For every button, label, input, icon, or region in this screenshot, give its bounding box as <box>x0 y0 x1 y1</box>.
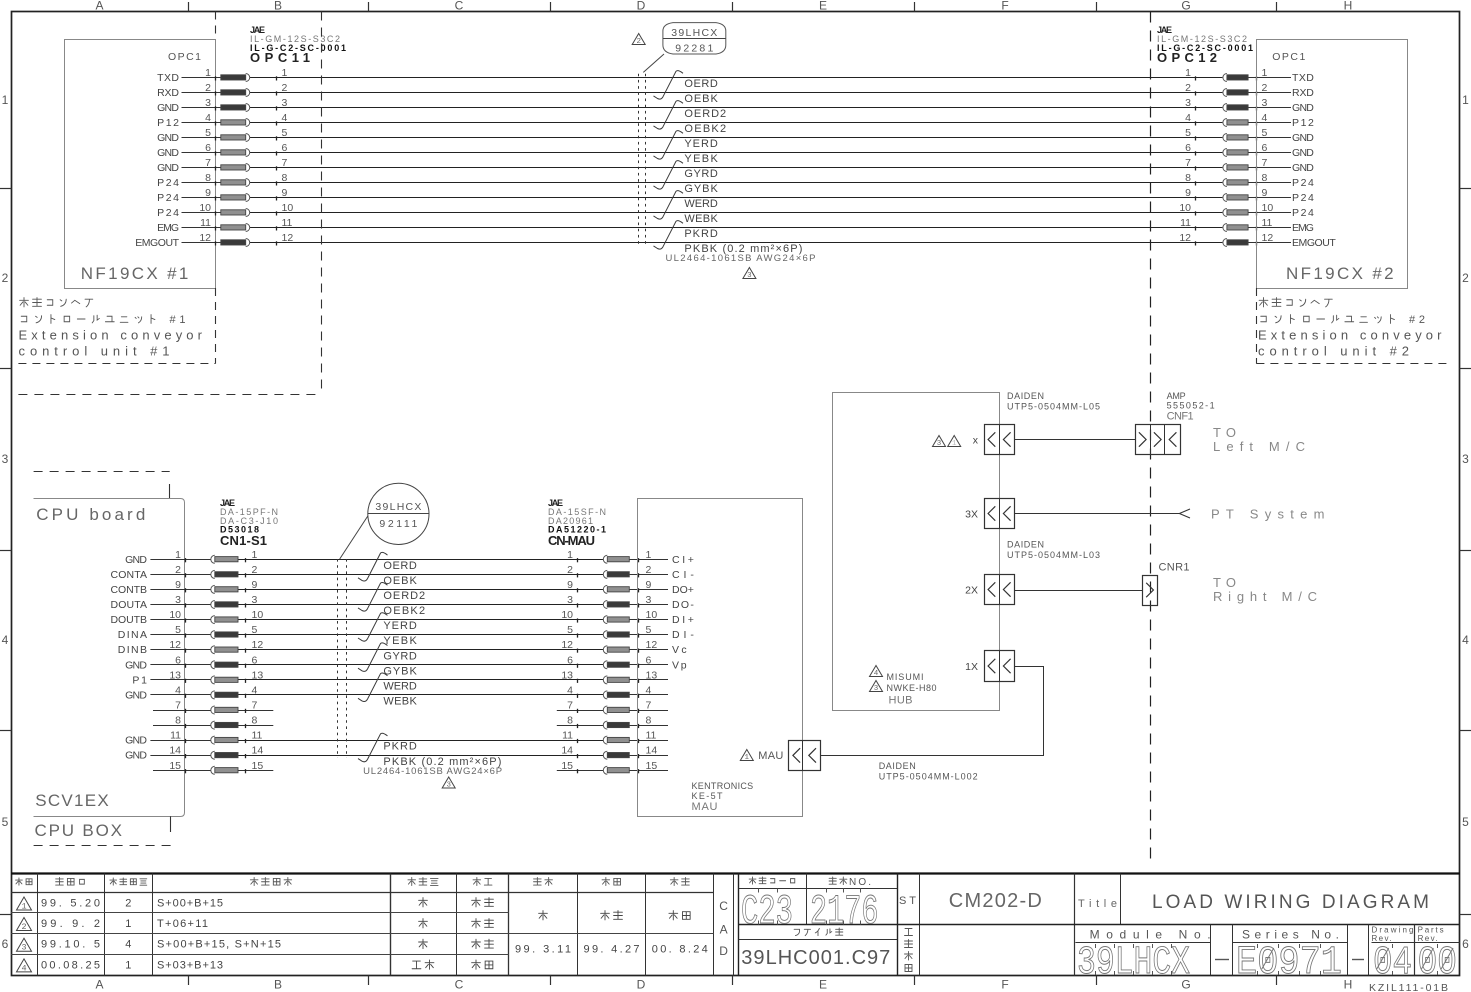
cable spec UL2464 (top) <box>666 253 816 264</box>
svg-text:A: A <box>95 0 103 13</box>
svg-text:92281: 92281 <box>675 43 713 55</box>
svg-text:EMG: EMG <box>1292 222 1314 234</box>
Module No. header <box>1090 928 1211 942</box>
svg-text:3: 3 <box>1185 97 1191 109</box>
CNF1 label block AMP <box>1167 391 1215 423</box>
svg-text:4: 4 <box>1462 633 1469 647</box>
CN-MAU pin 1 contact <box>567 549 651 564</box>
svg-text:4: 4 <box>874 670 879 678</box>
cable spec UL2464 (middle) <box>363 766 502 777</box>
HUB port 1X <box>985 651 1015 682</box>
svg-text:CONTB: CONTB <box>111 584 148 596</box>
svg-text:HUB: HUB <box>889 695 913 707</box>
svg-text:3: 3 <box>874 685 879 693</box>
CN1-S1 pin 7 contact <box>175 700 257 715</box>
svg-text:7: 7 <box>567 700 573 712</box>
OPC12 pin 4 contact <box>1185 112 1267 127</box>
svg-text:3: 3 <box>937 440 942 448</box>
svg-text:GND: GND <box>1292 132 1314 144</box>
svg-text:YERD: YERD <box>383 620 416 632</box>
svg-text:TXD: TXD <box>1292 72 1314 84</box>
svg-text:4: 4 <box>1262 112 1268 124</box>
svg-text:555052-1: 555052-1 <box>1167 401 1215 411</box>
wire row 14 CN1-S1 pin 14 <box>150 755 668 757</box>
svg-text:11: 11 <box>1180 217 1191 229</box>
file name 39LHC001.C97 <box>741 947 890 969</box>
svg-text:2: 2 <box>125 898 131 910</box>
svg-text:NO.: NO. <box>849 877 871 888</box>
svg-text:6: 6 <box>1262 142 1268 154</box>
connector OPC12 label block (JAE) <box>1157 25 1253 65</box>
svg-text:9: 9 <box>175 579 181 591</box>
twisted pair mark 5 (top) <box>654 191 684 219</box>
svg-text:UL2464-1061SB AWG24×6P: UL2464-1061SB AWG24×6P <box>666 253 816 264</box>
svg-text:3: 3 <box>446 782 451 790</box>
svg-text:4: 4 <box>175 684 181 696</box>
svg-text:DO+: DO+ <box>672 584 694 596</box>
svg-text:2: 2 <box>21 922 26 932</box>
wire pin7 OPC11 to OPC12 (GND) <box>182 167 1292 169</box>
svg-text:OEBK: OEBK <box>383 575 417 587</box>
revision table grid <box>11 874 734 976</box>
OPC12 pin 11 contact <box>1180 217 1272 232</box>
svg-text:KZIL111-01B: KZIL111-01B <box>1369 982 1448 992</box>
svg-text:E: E <box>819 0 827 13</box>
svg-text:F: F <box>1001 0 1008 13</box>
svg-text:39LHCX: 39LHCX <box>671 27 717 39</box>
svg-text:WERD: WERD <box>684 198 717 210</box>
svg-text:D: D <box>637 978 646 992</box>
MAU port label <box>758 750 783 762</box>
CN1-S1 pin 5 contact <box>175 624 257 639</box>
svg-text:GND: GND <box>157 162 179 174</box>
svg-text:UTP5-0504MM-L002: UTP5-0504MM-L002 <box>879 772 978 782</box>
svg-text:4: 4 <box>205 112 211 124</box>
svg-text:5: 5 <box>2 815 9 829</box>
unit #2 label: Extension conveyor control unit #2 <box>1258 298 1442 359</box>
Series No. header <box>1242 928 1339 942</box>
svg-text:B: B <box>274 0 282 13</box>
MAU port connector <box>789 740 821 770</box>
svg-text:OERD2: OERD2 <box>684 108 726 120</box>
svg-text:2: 2 <box>2 271 9 285</box>
svg-text:DAIDEN: DAIDEN <box>879 761 916 771</box>
svg-text:1: 1 <box>21 902 26 912</box>
svg-text:8: 8 <box>175 715 181 727</box>
twisted pair mark 3 (top) <box>654 131 684 159</box>
svg-text:UTP5-0504MM-L05: UTP5-0504MM-L05 <box>1007 402 1100 412</box>
svg-text:x: x <box>973 435 979 447</box>
svg-text:5: 5 <box>1462 815 1469 829</box>
svg-text:GND: GND <box>1292 162 1314 174</box>
svg-text:GND: GND <box>157 147 179 159</box>
svg-text:8: 8 <box>1185 172 1191 184</box>
HUB port 2X <box>985 574 1015 604</box>
connector CNR1 <box>1143 576 1158 606</box>
drawing revision 04 <box>1373 941 1412 986</box>
svg-text:10: 10 <box>646 609 658 621</box>
svg-text:G: G <box>1181 0 1190 13</box>
twisted pair mark 2 (top) <box>654 101 684 129</box>
svg-text:3: 3 <box>747 272 752 280</box>
svg-text:Title: Title <box>1078 898 1117 910</box>
svg-text:4: 4 <box>252 684 258 696</box>
CN-MAU pin 3 contact <box>567 594 651 609</box>
svg-text:RXD: RXD <box>157 87 179 99</box>
OPC12 pin 5 contact <box>1185 127 1267 142</box>
svg-text:13: 13 <box>646 669 658 681</box>
svg-text:CPU board: CPU board <box>36 505 145 524</box>
CPU board signal names GND..P1 <box>111 554 148 762</box>
svg-text:P24: P24 <box>157 192 179 204</box>
svg-text:11: 11 <box>252 730 263 742</box>
svg-text:1: 1 <box>567 549 573 561</box>
wire row 12 CN1-S1 pin 8 <box>153 725 668 727</box>
svg-text:9: 9 <box>282 187 288 199</box>
CN1-S1 pin 6 contact <box>175 654 257 669</box>
svg-text:Right M/C: Right M/C <box>1213 589 1317 604</box>
Parts Rev. header <box>1418 926 1444 944</box>
revision triangle 3 (top cable spec) <box>743 268 756 281</box>
svg-text:12: 12 <box>1262 232 1274 244</box>
twisted pair mark 6 (middle) <box>358 733 388 762</box>
svg-text:15: 15 <box>169 760 181 772</box>
svg-text:13: 13 <box>252 669 264 681</box>
svg-text:DI-: DI- <box>672 629 694 641</box>
approval signatures <box>515 911 708 956</box>
svg-text:CN-MAU: CN-MAU <box>548 533 595 548</box>
cable label DAIDEN UTP5-0504MM-L002 <box>879 761 978 782</box>
wire row 2 CN1-S1 pin 2 <box>150 574 668 576</box>
svg-text:13: 13 <box>169 669 181 681</box>
svg-text:3: 3 <box>1462 452 1469 466</box>
svg-text:4: 4 <box>646 684 652 696</box>
wire pin5 OPC11 to OPC12 (GND) <box>182 137 1292 139</box>
wire pin12 OPC11 to OPC12 (EMGOUT) <box>182 242 1292 244</box>
OPC11 pin 1 contact <box>205 67 287 82</box>
svg-text:10: 10 <box>282 202 294 214</box>
svg-text:LOAD WIRING DIAGRAM: LOAD WIRING DIAGRAM <box>1152 892 1429 913</box>
parts revision 00 <box>1418 941 1457 986</box>
svg-text:CNF1: CNF1 <box>1167 411 1194 423</box>
svg-text:8: 8 <box>282 172 288 184</box>
svg-text:P12: P12 <box>1292 117 1314 129</box>
unit #1 label: Extension conveyor control unit #1 <box>19 298 203 359</box>
svg-text:A: A <box>95 978 103 992</box>
svg-text:1: 1 <box>646 549 652 561</box>
svg-text:B: B <box>274 978 282 992</box>
svg-text:DOUTA: DOUTA <box>111 599 148 611</box>
CN-MAU pin 6 contact <box>567 654 651 669</box>
svg-text:11: 11 <box>200 217 211 229</box>
OPC12 pin 6 contact <box>1185 142 1267 157</box>
svg-text:2: 2 <box>175 564 181 576</box>
svg-text:10: 10 <box>199 202 211 214</box>
OPC12 pin 7 contact <box>1185 157 1267 172</box>
svg-text:DOUTB: DOUTB <box>111 614 148 626</box>
svg-text:14: 14 <box>561 745 573 757</box>
wire row 4 CN1-S1 pin 3 <box>150 604 668 606</box>
svg-text:8: 8 <box>567 715 573 727</box>
svg-text:TXD: TXD <box>157 72 179 84</box>
svg-text:3: 3 <box>567 594 573 606</box>
svg-text:5: 5 <box>1262 127 1268 139</box>
OPC11 pin 2 contact <box>205 82 287 97</box>
svg-text:12: 12 <box>282 232 294 244</box>
svg-text:MAU: MAU <box>758 750 783 762</box>
title block right grid <box>739 874 1461 976</box>
drawing title LOAD WIRING DIAGRAM <box>1152 892 1429 913</box>
svg-text:8: 8 <box>205 172 211 184</box>
svg-text:GYRD: GYRD <box>383 650 416 662</box>
MAU box (KENTRONICS KE-5T) <box>638 499 803 817</box>
svg-text:7: 7 <box>252 700 258 712</box>
OPC11 pin 3 contact <box>205 97 287 112</box>
svg-text:DINA: DINA <box>118 629 147 641</box>
CPU BOX dashed enclosure top edge <box>34 472 170 499</box>
svg-text:EMG: EMG <box>157 222 179 234</box>
svg-text:1: 1 <box>282 67 288 79</box>
svg-text:5: 5 <box>646 624 652 636</box>
OPC11 pin 12 contact <box>199 232 293 247</box>
svg-text:CONTA: CONTA <box>111 569 148 581</box>
wire HUB 3X to PT System <box>1015 509 1190 518</box>
form number KZIL111-01B <box>1369 982 1448 992</box>
OPC12 pin 12 contact <box>1179 232 1273 247</box>
svg-text:9: 9 <box>252 579 258 591</box>
svg-text:1: 1 <box>175 549 181 561</box>
destination label TO Right M/C <box>1213 575 1317 604</box>
wire HUB x to CNF1 <box>1015 439 1136 441</box>
svg-text:E: E <box>819 978 827 992</box>
CN-MAU pin 9 contact <box>567 579 651 594</box>
leader line to cable dashes (middle) <box>340 516 368 559</box>
svg-text:6: 6 <box>282 142 288 154</box>
OPC11 pin 10 contact <box>199 202 293 217</box>
svg-text:7: 7 <box>646 700 652 712</box>
wire color labels OERD..PKBK (middle) <box>383 560 501 768</box>
svg-text:OPC1: OPC1 <box>168 51 201 63</box>
svg-text:3: 3 <box>1262 97 1268 109</box>
svg-text:EMGOUT: EMGOUT <box>135 237 179 249</box>
svg-text:KE-5T: KE-5T <box>692 791 724 801</box>
svg-text:DO-: DO- <box>672 599 694 611</box>
svg-text:9: 9 <box>1185 187 1191 199</box>
svg-text:P24: P24 <box>1292 192 1314 204</box>
OPC11 pin 8 contact <box>205 172 287 187</box>
svg-text:GND: GND <box>125 554 147 566</box>
twisted pair mark 4 (top) <box>654 161 684 189</box>
svg-text:E0971: E0971 <box>1236 941 1342 986</box>
revision row 3 <box>17 938 494 953</box>
svg-text:1: 1 <box>1462 93 1469 107</box>
revision table headers <box>16 877 690 885</box>
svg-text:7: 7 <box>205 157 211 169</box>
wire pin11 OPC11 to OPC12 (EMG) <box>182 227 1292 229</box>
svg-text:2: 2 <box>636 38 641 46</box>
cable marker 39LHCX 92281 <box>663 23 726 55</box>
svg-text:H: H <box>1344 0 1353 13</box>
wire HUB 1X to MAU <box>820 667 1043 756</box>
svg-text:DAIDEN: DAIDEN <box>1007 391 1044 401</box>
svg-text:1: 1 <box>125 959 131 971</box>
CAD column <box>719 899 728 958</box>
svg-text:CNR1: CNR1 <box>1159 562 1190 574</box>
CN1-S1 pin 14 contact <box>169 745 263 760</box>
separator dash 2 <box>1352 959 1364 961</box>
CN-MAU pin 7 contact <box>567 700 651 715</box>
revision triangles 3 and 1 (HUB port x) <box>933 436 961 449</box>
long dashed boundary line (right) <box>1150 12 1152 862</box>
revision triangle 3 (middle cable spec) <box>442 777 455 790</box>
svg-text:GND: GND <box>1292 102 1314 114</box>
CN1-S1 pin 10 contact <box>169 609 263 624</box>
svg-text:14: 14 <box>646 745 658 757</box>
svg-text:13: 13 <box>561 669 573 681</box>
svg-text:15: 15 <box>252 760 264 772</box>
twisted pair mark 4 (middle) <box>358 643 388 672</box>
svg-text:10: 10 <box>252 609 264 621</box>
wire pin9 OPC11 to OPC12 (P24) <box>182 197 1292 199</box>
svg-text:S+00+B+15, S+N+15: S+00+B+15, S+N+15 <box>157 939 281 951</box>
OPC11 pin 5 contact <box>205 127 287 142</box>
svg-text:GYRD: GYRD <box>684 168 717 180</box>
svg-text:7: 7 <box>1262 157 1268 169</box>
svg-text:RXD: RXD <box>1292 87 1314 99</box>
twisted pair mark 6 (top) <box>654 221 684 249</box>
svg-text:S+00+B+15: S+00+B+15 <box>157 898 223 910</box>
svg-text:11: 11 <box>646 730 657 742</box>
svg-text:1: 1 <box>205 67 211 79</box>
svg-text:A: A <box>720 923 728 937</box>
svg-text:3: 3 <box>252 594 258 606</box>
CN-MAU pin 14 contact <box>561 745 657 760</box>
svg-text:12: 12 <box>252 639 264 651</box>
svg-text:3: 3 <box>205 97 211 109</box>
twisted pair mark 5 (middle) <box>358 673 388 701</box>
dashed enclosure unit #1 inner <box>18 12 215 364</box>
svg-text:P12: P12 <box>157 117 179 129</box>
svg-text:C: C <box>455 0 464 13</box>
revision triangle 1 (MAU) <box>740 750 753 763</box>
CN1-S1 pin 15 contact <box>169 760 263 775</box>
svg-text:T+06+11: T+06+11 <box>157 918 208 930</box>
svg-text:4: 4 <box>2 633 9 647</box>
svg-text:F: F <box>1001 978 1008 992</box>
svg-text:UL2464-1061SB AWG24×6P: UL2464-1061SB AWG24×6P <box>363 766 502 777</box>
svg-text:12: 12 <box>561 639 573 651</box>
revision triangle 2 (top) <box>632 34 645 47</box>
OPC12 pin 2 contact <box>1185 82 1267 97</box>
svg-text:92111: 92111 <box>379 518 417 530</box>
svg-text:3X: 3X <box>965 509 978 521</box>
CN-MAU pin 13 contact <box>561 669 657 684</box>
revision row 1 <box>17 897 494 912</box>
svg-text:15: 15 <box>646 760 658 772</box>
svg-text:C23: C23 <box>741 888 793 936</box>
svg-text:2X: 2X <box>965 585 978 597</box>
wire pin2 OPC11 to OPC12 (RXD) <box>182 92 1292 94</box>
department code C23 2176 <box>741 888 879 936</box>
CN1-S1 pin 3 contact <box>175 594 257 609</box>
connector CNF1 (AMP 555052-1) <box>1136 425 1181 455</box>
separator dash 1 <box>1215 959 1229 961</box>
svg-text:6: 6 <box>252 654 258 666</box>
revision row 2 <box>17 918 494 933</box>
svg-text:C: C <box>719 899 728 913</box>
cable label DAIDEN UTP5-0504MM-L03 <box>1007 540 1100 561</box>
svg-text:OPC1: OPC1 <box>1272 51 1305 63</box>
svg-text:1: 1 <box>252 549 258 561</box>
svg-text:GND: GND <box>1292 147 1314 159</box>
CN1-S1 pin 2 contact <box>175 564 257 579</box>
svg-text:1: 1 <box>952 440 957 448</box>
svg-text:C: C <box>455 978 464 992</box>
svg-text:11: 11 <box>170 730 181 742</box>
svg-text:1: 1 <box>125 918 131 930</box>
CN-MAU pin 4 contact <box>567 684 651 699</box>
svg-text:OEBK: OEBK <box>684 93 718 105</box>
HUB port x <box>985 424 1015 454</box>
svg-text:1: 1 <box>1262 67 1268 79</box>
svg-text:D: D <box>719 944 728 958</box>
svg-text:OERD: OERD <box>383 560 416 572</box>
NF19CX #1 signal names TXD..EMGOUT <box>135 72 179 249</box>
svg-text:YEBK: YEBK <box>383 635 417 647</box>
NF19CX #2 signal names TXD..EMGOUT <box>1292 72 1336 249</box>
svg-text:3: 3 <box>175 594 181 606</box>
svg-text:8: 8 <box>646 715 652 727</box>
wire row 5 CN1-S1 pin 10 <box>150 619 668 621</box>
OPC11 pin 6 contact <box>205 142 287 157</box>
svg-text:9: 9 <box>1262 187 1268 199</box>
wire pin6 OPC11 to OPC12 (GND) <box>182 152 1292 154</box>
svg-text:2176: 2176 <box>810 888 879 936</box>
connector block NF19CX #2 box <box>1257 40 1408 289</box>
svg-text:NF19CX #1: NF19CX #1 <box>81 264 189 283</box>
svg-text:P24: P24 <box>157 177 179 189</box>
svg-text:GND: GND <box>125 750 147 762</box>
svg-text:KENTRONICS: KENTRONICS <box>692 781 754 791</box>
svg-text:MISUMI: MISUMI <box>887 672 924 682</box>
svg-text:4: 4 <box>1185 112 1191 124</box>
svg-text:GND: GND <box>125 735 147 747</box>
svg-text:12: 12 <box>1179 232 1191 244</box>
svg-text:15: 15 <box>561 760 573 772</box>
svg-text:5: 5 <box>175 624 181 636</box>
svg-text:DI+: DI+ <box>672 614 694 626</box>
twisted pair mark 2 (middle) <box>358 583 388 612</box>
svg-text:9: 9 <box>205 187 211 199</box>
svg-text:CM202-D: CM202-D <box>949 890 1042 912</box>
svg-text:7: 7 <box>175 700 181 712</box>
svg-text:1: 1 <box>2 93 9 107</box>
connector block NF19CX #1 box <box>65 40 216 289</box>
svg-text:P24: P24 <box>1292 207 1314 219</box>
svg-text:S+03+B+13: S+03+B+13 <box>157 959 223 971</box>
destination label TO Left M/C <box>1213 425 1305 454</box>
wire row 9 CN1-S1 pin 13 <box>150 679 668 681</box>
wire pin1 OPC11 to OPC12 (TXD) <box>182 77 1292 79</box>
svg-text:2: 2 <box>1185 82 1191 94</box>
series number E0971 <box>1236 941 1342 986</box>
svg-text:10: 10 <box>1179 202 1191 214</box>
svg-text:3: 3 <box>282 97 288 109</box>
Title label <box>1078 898 1117 910</box>
OPC11 pin 11 contact <box>200 217 292 232</box>
cable boundary dashed lines (middle) <box>338 559 347 758</box>
svg-text:5: 5 <box>252 624 258 636</box>
